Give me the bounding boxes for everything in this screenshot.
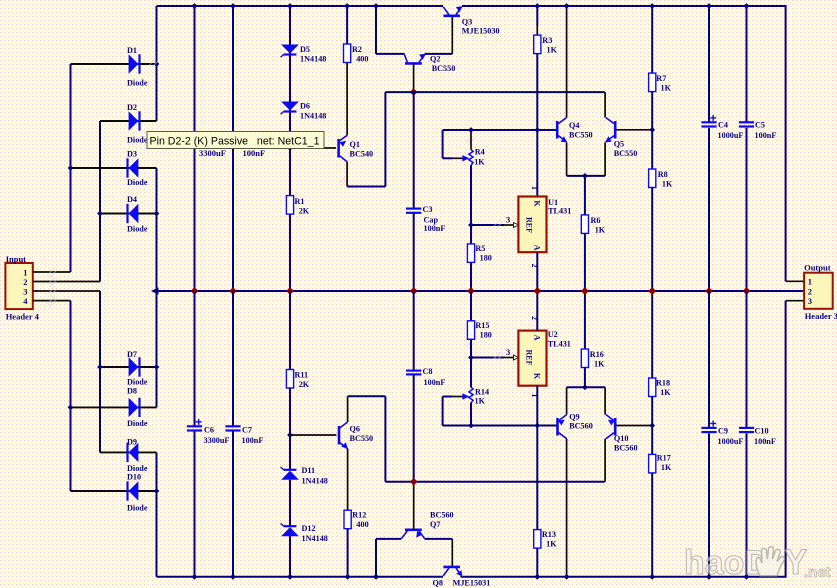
- wire: x156 bottom column: [156, 452, 158, 576]
- wire R18 top: [651, 291, 653, 378]
- svg-text:D7: D7: [127, 350, 137, 359]
- junction R3 bottom / U1 K: [534, 127, 540, 133]
- diode D7: [100, 366, 157, 368]
- junction R8 on mid rail: [649, 288, 656, 295]
- potentiometer R4: [469, 150, 473, 166]
- wire: emitters joined: [567, 175, 606, 177]
- svg-text:2: 2: [23, 277, 27, 287]
- junction C1/C6 on mid rail: [191, 288, 198, 295]
- svg-text:Pin D2-2 (K) Passive net: Ne: Pin D2-2 (K) Passive net: NetC1_1: [150, 136, 320, 148]
- junction U1 REF: [468, 222, 474, 228]
- wire R7 top: [651, 6, 653, 73]
- svg-text:1K: 1K: [662, 180, 673, 189]
- svg-text:D1: D1: [127, 46, 137, 55]
- capacitor C1 column: [194, 6, 196, 291]
- resistor R18: [649, 378, 656, 397]
- svg-text:1N4148: 1N4148: [302, 534, 328, 543]
- svg-text:R11: R11: [295, 371, 309, 380]
- svg-text:1K: 1K: [474, 158, 485, 167]
- resistor R8: [649, 169, 656, 188]
- wire U2 K down: [536, 386, 538, 426]
- wire D5-D6-R1 column: [289, 6, 291, 196]
- svg-text:TL431: TL431: [548, 207, 571, 216]
- junction D4 left: [97, 211, 103, 217]
- wire C10 top: [746, 291, 748, 428]
- diode D8: [71, 406, 157, 408]
- wire C5 top: [746, 6, 748, 123]
- wire Q10 collector down: [604, 439, 606, 482]
- wire Q9 collector to bottom rail: [566, 439, 568, 577]
- junction D7 left: [97, 364, 103, 370]
- svg-text:Header 3: Header 3: [805, 311, 837, 321]
- svg-text:100nF: 100nF: [424, 378, 446, 387]
- svg-text:REF: REF: [525, 217, 534, 233]
- resistor R11: [286, 370, 293, 389]
- resistor R7: [649, 73, 656, 92]
- svg-text:D8: D8: [127, 387, 137, 396]
- svg-text:2: 2: [530, 264, 539, 268]
- svg-text:Diode: Diode: [127, 419, 148, 428]
- svg-text:2: 2: [530, 316, 539, 320]
- diode D4: [100, 213, 157, 215]
- wire R16 top: [584, 291, 586, 349]
- svg-text:BC550: BC550: [432, 64, 456, 73]
- resistor R17: [649, 454, 656, 473]
- svg-text:D10: D10: [127, 473, 141, 482]
- junction Q10 base: [649, 423, 655, 429]
- wire: rail to Q2 collector: [375, 6, 377, 54]
- svg-text:400: 400: [356, 55, 368, 64]
- wire: Q7 base net horizontal: [385, 481, 604, 483]
- junction R18 on mid rail: [649, 288, 656, 295]
- svg-text:.net: .net: [804, 564, 831, 581]
- wire Q5 collector up to base net: [604, 92, 606, 118]
- resistor R2: [344, 44, 351, 63]
- svg-text:C6: C6: [204, 426, 214, 435]
- svg-text:3300uF: 3300uF: [204, 436, 230, 445]
- capacitor C8: [413, 291, 415, 370]
- wire Q10 emitter up: [604, 387, 606, 414]
- svg-text:D5: D5: [300, 45, 310, 54]
- svg-text:1K: 1K: [594, 360, 605, 369]
- svg-text:Q6: Q6: [350, 425, 360, 434]
- svg-text:180: 180: [480, 331, 492, 340]
- wire U2 pin3 lead: [471, 357, 504, 359]
- svg-text:R15: R15: [475, 321, 489, 330]
- resistor R13: [534, 530, 541, 549]
- wire U1 pin2 (A) down: [536, 252, 538, 291]
- svg-text:Q10: Q10: [614, 434, 629, 443]
- pin leads input: [33, 271, 71, 273]
- wire: Q1 collector loop: [346, 162, 348, 187]
- wire Q4 collector to top rail: [566, 6, 568, 118]
- junction Q7 base / C8: [410, 478, 417, 485]
- junction U2 A on mid rail: [534, 288, 541, 295]
- junction D3 left: [68, 165, 74, 171]
- wire: Q2 base down: [413, 63, 415, 92]
- wire: top rail right segment: [462, 5, 787, 7]
- svg-text:100nF: 100nF: [755, 131, 777, 140]
- resistor R12: [344, 510, 351, 529]
- svg-text:R3: R3: [542, 36, 552, 45]
- wire: Q2 emitter to Q3 base: [425, 53, 453, 55]
- svg-text:2K: 2K: [299, 380, 310, 389]
- transistor Q10: [614, 418, 617, 436]
- junction U2 K: [534, 423, 540, 429]
- diode D5: [281, 45, 299, 54]
- junction emitters / R6: [582, 173, 588, 179]
- svg-text:D3: D3: [127, 150, 137, 159]
- junction D8 left: [68, 405, 74, 411]
- tooltip: [147, 132, 324, 149]
- junction D4 right: [154, 211, 160, 217]
- svg-text:TL431: TL431: [548, 340, 571, 349]
- svg-text:C3: C3: [423, 205, 433, 214]
- resistor R3: [534, 35, 541, 54]
- wire: input pin1 riser: [70, 64, 72, 272]
- transistor Q9: [556, 418, 559, 436]
- wire: -out column: [785, 301, 787, 577]
- svg-text:Header 4: Header 4: [6, 312, 40, 322]
- resistor R15: [467, 321, 474, 340]
- svg-text:C8: C8: [423, 367, 433, 376]
- svg-text:3: 3: [23, 286, 27, 296]
- junction Q2 base / C3: [410, 89, 417, 96]
- transistor Q3: [443, 15, 460, 18]
- pin R2 bottom: [346, 63, 348, 73]
- junction R16 on mid rail: [582, 288, 589, 295]
- svg-text:MJE15031: MJE15031: [453, 579, 491, 588]
- wire R6 top: [584, 176, 586, 215]
- svg-text:Diode: Diode: [127, 136, 148, 145]
- svg-text:K: K: [533, 200, 542, 207]
- transistor Q7: [405, 528, 422, 531]
- svg-text:BC560: BC560: [430, 511, 454, 520]
- wire Q6 base: [290, 434, 336, 436]
- junction R5 on mid rail: [468, 288, 475, 295]
- watermark haoDIY.net: [684, 543, 831, 582]
- wire Q5 emitter down: [604, 142, 606, 176]
- wire: R4 top wiper loop: [442, 130, 444, 158]
- diode D1: [71, 63, 157, 65]
- junction emitters / R16: [582, 384, 588, 390]
- diode D6: [281, 102, 299, 111]
- wire Q7 collector to bottom rail: [376, 538, 401, 540]
- capacitor C7: [225, 425, 240, 427]
- wire: x156 mid column: [156, 168, 158, 291]
- svg-text:R12: R12: [352, 511, 366, 520]
- svg-text:Q5: Q5: [614, 140, 624, 149]
- wire Q10 base to R18/R17 node: [616, 425, 652, 427]
- transistor Q1: [337, 139, 340, 158]
- junction D10 right: [154, 488, 160, 494]
- svg-text:100nF: 100nF: [424, 224, 446, 233]
- wire: +out column: [785, 6, 787, 281]
- svg-text:BC560: BC560: [569, 422, 593, 431]
- wire R11 column: [289, 291, 291, 370]
- wire: Q6 collector loop: [347, 396, 349, 422]
- wire C9 top: [708, 291, 710, 428]
- svg-text:Q1: Q1: [350, 140, 360, 149]
- svg-text:400: 400: [356, 520, 368, 529]
- diode D10: [71, 490, 157, 492]
- svg-text:BC550: BC550: [350, 434, 374, 443]
- capacitor C3: [413, 92, 415, 208]
- svg-text:BC540: BC540: [350, 150, 374, 159]
- junction D7 right: [154, 364, 160, 370]
- junction C2/C7 on mid rail: [230, 288, 237, 295]
- svg-text:100nF: 100nF: [242, 436, 264, 445]
- transistor Q6: [338, 426, 341, 445]
- junction Q6 base: [287, 432, 293, 438]
- svg-text:3: 3: [506, 347, 510, 357]
- svg-text:BC550: BC550: [614, 149, 638, 158]
- transistor Q2: [405, 62, 422, 65]
- capacitor C10: [739, 427, 754, 429]
- svg-text:D4: D4: [127, 195, 137, 204]
- svg-text:REF: REF: [525, 350, 534, 366]
- svg-text:Q3: Q3: [462, 18, 472, 27]
- wire: bottom reference node horizontal: [443, 425, 557, 427]
- junction U1 A on mid rail: [534, 288, 541, 295]
- wire: Q2 base net horizontal: [385, 91, 604, 93]
- resistor R6: [581, 215, 588, 234]
- wire: top rail left segment: [157, 5, 444, 7]
- svg-text:Output: Output: [804, 263, 831, 273]
- capacitor C6: [187, 425, 202, 427]
- junction R6 on mid rail: [582, 288, 589, 295]
- svg-text:1K: 1K: [661, 463, 672, 472]
- wire: cathode column top (x156): [156, 6, 158, 121]
- junction R1 on mid rail: [287, 288, 294, 295]
- svg-text:1K: 1K: [660, 388, 671, 397]
- svg-text:C4: C4: [718, 121, 728, 130]
- wire U2 pin2 up: [536, 291, 538, 331]
- IC U1 TL431: [518, 197, 546, 253]
- svg-text:1K: 1K: [595, 226, 606, 235]
- svg-text:1N4148: 1N4148: [302, 477, 328, 486]
- wire: Q6 emitter down to R12: [347, 449, 349, 510]
- wire R3: [536, 6, 538, 26]
- svg-text:3: 3: [808, 296, 812, 306]
- svg-text:3: 3: [506, 215, 510, 225]
- transistor Q8: [443, 566, 460, 569]
- svg-text:C10: C10: [755, 427, 769, 436]
- svg-text:2: 2: [808, 286, 812, 296]
- wire Q5 base to R7/R8 node: [616, 129, 652, 131]
- svg-text:D11: D11: [302, 466, 316, 475]
- svg-text:100nF: 100nF: [243, 148, 266, 158]
- svg-text:BC550: BC550: [569, 131, 593, 140]
- diode D9: [100, 451, 157, 453]
- junction D1 right: [154, 61, 160, 67]
- junction Q5 base: [649, 127, 655, 133]
- svg-text:1N4148: 1N4148: [300, 55, 326, 64]
- svg-text:1K: 1K: [546, 540, 557, 549]
- svg-text:1: 1: [530, 394, 539, 398]
- svg-text:Diode: Diode: [127, 378, 148, 387]
- svg-text:R8: R8: [658, 170, 668, 179]
- svg-text:1000uF: 1000uF: [718, 131, 744, 140]
- diode D2: [100, 120, 157, 122]
- svg-text:R13: R13: [542, 530, 556, 539]
- svg-text:1K: 1K: [661, 84, 672, 93]
- wire C4 top: [708, 6, 710, 123]
- wire Q4 emitter down: [566, 142, 568, 176]
- svg-text:Q9: Q9: [569, 413, 579, 422]
- capacitor C4: [701, 121, 716, 123]
- junction Q1 base (hidden by tooltip): [287, 145, 293, 151]
- svg-text:1000uF: 1000uF: [718, 437, 744, 446]
- wire: U1 pin3 lead: [471, 224, 504, 226]
- svg-text:1: 1: [808, 277, 812, 287]
- potentiometer R14: [469, 387, 473, 403]
- svg-text:1K: 1K: [547, 46, 558, 55]
- wire Q7 emitter to Q8 base: [425, 538, 453, 540]
- wire: middle rail: [157, 290, 805, 292]
- svg-text:D12: D12: [302, 524, 316, 533]
- wire Q9 emitter up: [566, 387, 568, 414]
- svg-text:Diode: Diode: [127, 79, 148, 88]
- wire: pin4 riser: [70, 301, 72, 491]
- junction U2 REF: [468, 355, 474, 361]
- capacitor C9: [701, 427, 716, 429]
- svg-text:R17: R17: [657, 454, 671, 463]
- svg-text:R1: R1: [295, 197, 305, 206]
- transistor Q5: [614, 121, 617, 139]
- svg-text:1K: 1K: [475, 397, 486, 406]
- svg-text:A: A: [533, 335, 542, 341]
- svg-text:Q8: Q8: [433, 579, 443, 588]
- svg-text:U2: U2: [548, 330, 558, 339]
- node: middle rail left end arrow: [151, 287, 159, 294]
- diode D3: [71, 167, 157, 169]
- svg-text:Q2: Q2: [430, 55, 440, 64]
- svg-text:Diode: Diode: [127, 225, 148, 234]
- svg-text:R7: R7: [656, 74, 666, 83]
- svg-text:D6: D6: [300, 102, 310, 111]
- wire: bottom emitters joined: [567, 386, 606, 388]
- svg-text:Input: Input: [6, 254, 26, 264]
- resistor R16: [581, 349, 588, 368]
- wire: x156 below rail: [156, 291, 158, 407]
- junction C4/C9 on mid rail: [706, 288, 713, 295]
- svg-text:D9: D9: [127, 438, 137, 447]
- svg-text:R14: R14: [475, 388, 489, 397]
- wire: pin3 dropper: [99, 291, 101, 452]
- resistor R5: [467, 244, 474, 263]
- svg-text:K: K: [533, 373, 542, 380]
- wire: bottom rail right segment: [461, 576, 787, 578]
- svg-text:R2: R2: [352, 45, 362, 54]
- svg-text:180: 180: [480, 254, 492, 263]
- wire C6 column: [194, 291, 196, 427]
- svg-text:3300uF: 3300uF: [199, 148, 226, 158]
- svg-text:C7: C7: [242, 426, 252, 435]
- svg-text:R18: R18: [656, 379, 670, 388]
- svg-text:Q7: Q7: [430, 520, 440, 529]
- junction C3 on mid rail: [410, 288, 417, 295]
- connector J-Input (Header 4): [5, 263, 32, 309]
- wire: Q1 emitter up to R2: [346, 72, 348, 135]
- svg-text:C5: C5: [755, 121, 765, 130]
- svg-text:Diode: Diode: [127, 504, 148, 513]
- svg-text:2K: 2K: [299, 207, 310, 216]
- svg-text:1: 1: [23, 267, 27, 277]
- svg-text:R5: R5: [475, 244, 485, 253]
- resistor R1: [286, 196, 293, 215]
- svg-text:1N4148: 1N4148: [300, 112, 326, 121]
- diode D12: [281, 527, 299, 536]
- svg-text:100nF: 100nF: [754, 437, 776, 446]
- wire R13 top: [536, 426, 538, 530]
- transistor Q4: [556, 121, 559, 139]
- svg-text:C9: C9: [718, 427, 728, 436]
- wire: bottom rail left segment: [157, 576, 444, 578]
- svg-text:R4: R4: [475, 148, 485, 157]
- svg-text:MJE15030: MJE15030: [462, 27, 500, 36]
- svg-text:D2: D2: [127, 103, 137, 112]
- wire: pin2 riser: [99, 121, 101, 282]
- svg-text:Diode: Diode: [127, 178, 148, 187]
- svg-text:BC560: BC560: [614, 444, 638, 453]
- wire Q7 base up: [413, 482, 415, 530]
- svg-text:1: 1: [530, 186, 539, 190]
- IC U2 TL431: [518, 331, 546, 386]
- svg-text:A: A: [533, 245, 542, 251]
- wire: reference node horizontal: [443, 129, 557, 131]
- wire R2 top: [346, 6, 348, 44]
- capacitor C2 column: [232, 6, 234, 291]
- svg-text:Q4: Q4: [569, 121, 579, 130]
- wire: pot column: [470, 130, 472, 150]
- svg-text:R6: R6: [591, 216, 601, 225]
- svg-text:R16: R16: [590, 350, 604, 359]
- capacitor C5: [739, 121, 754, 123]
- wire: R14 wiper loop: [443, 396, 453, 398]
- wire R15 top: [470, 291, 472, 321]
- connector J-Output (Header 3): [804, 273, 833, 309]
- wire C7 column: [232, 291, 234, 427]
- junction C5/C10 on mid rail: [743, 288, 750, 295]
- wire Q1 base: [290, 147, 336, 149]
- diode D11: [281, 471, 299, 480]
